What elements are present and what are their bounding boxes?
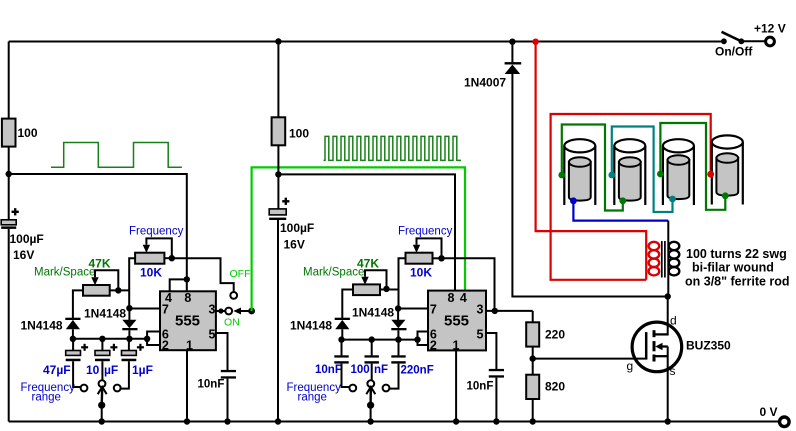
node cap rail at D3	[338, 336, 344, 342]
terminal 0 V	[760, 405, 790, 427]
wire MOSFET source to 0V rail	[667, 347, 669, 422]
wire green gate signal to U2 pin4	[252, 167, 465, 311]
node C2 on 0V rail	[275, 418, 281, 424]
wire switch to +12V terminal	[741, 40, 765, 42]
wire U1 pins 4 8 supply link	[170, 279, 187, 291]
svg-text:ON: ON	[224, 317, 240, 329]
wire timing cap rail (first 555)	[73, 338, 147, 340]
node cell3 outer green	[657, 171, 664, 178]
svg-text:100µF: 100µF	[280, 221, 314, 235]
wire pin3 to R3	[532, 311, 534, 322]
svg-text:s: s	[670, 364, 676, 378]
capacitor 10nF (U2 pin5)	[467, 369, 505, 393]
wire pin7 junction to U2 pin 7	[398, 308, 428, 310]
wire capacitor C1 to 0V rail	[8, 229, 10, 422]
waveform fast square wave	[324, 136, 462, 160]
wire U2 pin5 to 10nF	[486, 333, 496, 369]
wire 220nF to range contact	[390, 364, 399, 389]
switch pole arrow (second 555)	[366, 387, 375, 405]
svg-text:range: range	[32, 392, 61, 404]
wire pin7 junction down to diode D4	[397, 309, 399, 321]
svg-text:5: 5	[477, 328, 484, 342]
wire 10nF to range contact	[342, 364, 350, 387]
wire node to 555 U1 supply	[9, 174, 187, 279]
diode D4 1N4148 (second 555)	[391, 320, 406, 331]
wire 10uF to range contact	[101, 361, 103, 380]
node cap rail at D4	[395, 336, 401, 342]
svg-text:d: d	[670, 314, 677, 328]
wire U1 pin5 to 10nF	[216, 333, 228, 370]
node cell4 inner green	[722, 192, 729, 199]
wire 47K right to pin7 vertical	[110, 289, 130, 291]
wire resistor R2 top	[277, 42, 279, 118]
wire R3 to R4	[532, 347, 534, 375]
wire top +12V rail	[9, 41, 724, 43]
potentiometer 10K body (first 555)	[135, 253, 164, 280]
capacitor C2 100uF 16V	[269, 198, 314, 252]
wire bottom 0V rail	[9, 421, 779, 423]
electrolysis cell 2 inner electrode	[619, 157, 641, 200]
wire 1uF to range contact	[121, 361, 129, 388]
inductor primary winding (red)	[649, 242, 660, 276]
svg-text:10nF: 10nF	[315, 364, 342, 376]
node U2 pin3	[492, 308, 498, 314]
electrolysis cell 4 outer tube	[712, 135, 743, 204]
wire green cell3 outer to cell4 inner	[660, 123, 725, 210]
wire 10nF to 0V rail	[227, 379, 229, 422]
wire U1 pin1 to 0V rail	[186, 350, 188, 421]
node pin7 junction (first 555)	[126, 305, 132, 311]
inductor secondary winding (black)	[669, 242, 680, 276]
svg-text:555: 555	[175, 312, 200, 329]
wire R4 to 0V rail	[532, 399, 534, 422]
svg-text:1N4007: 1N4007	[464, 76, 506, 90]
potentiometer 10K wiper (second 555)	[413, 238, 442, 258]
potentiometer 10K (first 555) wiper	[143, 238, 172, 258]
op-amp timer U1 555	[160, 291, 216, 350]
svg-text:10nF: 10nF	[198, 379, 225, 391]
svg-text:BUZ350: BUZ350	[686, 339, 731, 353]
wire pole to 0V rail (second 555)	[370, 405, 372, 421]
capacitor C 220nF timing	[391, 340, 405, 364]
svg-text:+12 V: +12 V	[754, 22, 786, 36]
wire teal cell2 outer to cell3 inner	[612, 127, 673, 213]
wire 10K left terminal to pin7 node (second 555)	[399, 258, 406, 308]
wire D3 to cap rail	[341, 329, 343, 339]
node 10K right terminal (second 555)	[438, 255, 444, 261]
capacitor C 47uF	[66, 339, 88, 361]
wire D2 to cap rail	[128, 330, 130, 339]
wire left vertical from +12V rail	[8, 42, 10, 119]
diode D1 1N4148 (first 555)	[65, 318, 80, 330]
svg-text:1N4148: 1N4148	[290, 319, 332, 333]
svg-text:Frequency: Frequency	[129, 226, 184, 238]
svg-text:1N4148: 1N4148	[84, 306, 126, 320]
wire D1 to cap rail	[72, 329, 74, 339]
resistor R1 100	[2, 119, 38, 147]
potentiometer 10K body (second 555)	[406, 253, 433, 280]
wire green cell1 outer to cell2 inner	[562, 125, 623, 211]
svg-text:Mark/Space: Mark/Space	[34, 267, 95, 279]
contact range B (second 555)	[367, 380, 374, 387]
wire pole to 0V rail	[101, 405, 103, 421]
wire pins 6 and 2 link (first 555)	[147, 332, 160, 346]
electrolysis cell 2 outer tube	[614, 139, 645, 205]
node pole mid (first 555)	[98, 402, 105, 409]
wire 10K left terminal to pin7 node	[129, 258, 135, 308]
node red tap on +12V rail	[532, 39, 538, 45]
contact OFF	[230, 292, 237, 299]
contact ON	[225, 308, 232, 315]
transistor Q1 BUZ350	[632, 322, 682, 372]
node source on 0V rail	[665, 418, 671, 424]
svg-text:7: 7	[430, 303, 437, 317]
node cell1 inner blue	[570, 197, 577, 204]
wire gate node to MOSFET gate	[533, 358, 646, 360]
node pole mid (second 555)	[367, 402, 374, 409]
svg-text:nF: nF	[374, 364, 388, 376]
wire red primary bottom to cell 4 outer	[551, 114, 711, 280]
svg-text:8: 8	[184, 291, 191, 305]
diode D5 1N4007	[464, 42, 521, 90]
svg-text:0 V: 0 V	[760, 405, 778, 419]
node cell4 outer red	[707, 171, 714, 178]
svg-text:100 turns 22 swg: 100 turns 22 swg	[686, 247, 787, 261]
contact range C (second 555)	[383, 385, 390, 392]
transformer core ferrite rod	[662, 241, 665, 278]
node U1 pin1 on 0V rail	[184, 418, 190, 424]
node 1N4007 tap on +12V rail	[509, 39, 515, 45]
node cell2 inner green	[619, 197, 626, 204]
node cap rail at D2	[126, 336, 132, 342]
wire pin7 junction to 555 U1 pin 7	[129, 308, 160, 310]
electrolysis cell 3 inner electrode	[668, 155, 690, 199]
svg-text:47µF: 47µF	[43, 363, 71, 377]
waveform slow square wave	[51, 143, 182, 168]
node cell1 outer green	[558, 172, 565, 179]
capacitor 10nF (U1 pin5)	[198, 370, 237, 391]
node R4 on 0V rail	[530, 418, 536, 424]
svg-text:16V: 16V	[284, 238, 305, 252]
wire 47K right to pin7 vertical (second 555)	[380, 289, 399, 291]
svg-text:10K: 10K	[140, 266, 162, 280]
node pole on 0V rail (second 555)	[367, 418, 373, 424]
svg-text:3: 3	[209, 303, 216, 317]
node cap rail at C 10uF	[99, 336, 105, 342]
wire U1 pin3 output	[216, 310, 226, 312]
wire red +12V to primary top	[536, 42, 647, 280]
wire 47K left terminal down to diode D1	[73, 290, 83, 318]
wire 47uF to range contact	[73, 361, 80, 387]
capacitor C1 100uF 16V	[1, 208, 44, 262]
wire timing cap rail (second 555)	[342, 339, 418, 341]
node cap rail at C 100nF	[369, 336, 375, 342]
svg-text:g: g	[627, 359, 634, 373]
svg-text:100µF: 100µF	[10, 232, 44, 246]
node 47K right terminal (second 555)	[383, 286, 389, 292]
svg-text:220nF: 220nF	[401, 365, 434, 377]
svg-text:100: 100	[289, 127, 309, 141]
svg-text:100: 100	[351, 364, 370, 376]
svg-text:1µF: 1µF	[132, 363, 153, 377]
electrolysis cell 1 inner electrode	[569, 157, 591, 200]
electrolysis cell 1 outer tube	[564, 139, 595, 205]
wire 100nF to range contact	[371, 364, 373, 381]
svg-text:2: 2	[430, 338, 437, 352]
switch pole arrow (first 555)	[98, 387, 107, 405]
node pole on 0V rail	[99, 418, 105, 424]
capacitor C 1uF	[122, 339, 144, 361]
wire U1 pin 8 drop	[186, 279, 188, 291]
wire C2 to 0V rail	[277, 220, 279, 422]
wire 10K node down to U2 pin3	[442, 258, 495, 311]
svg-text:10K: 10K	[410, 266, 432, 280]
wire D4 to cap rail	[397, 330, 399, 339]
wire 10nF U2 to 0V rail	[495, 378, 497, 422]
wire U2 pin1 to 0V rail	[455, 350, 457, 421]
capacitor C 100nF timing	[365, 340, 379, 364]
wire resistor R1 to node	[8, 147, 10, 220]
contact range A (second 555)	[349, 385, 356, 392]
svg-text:4: 4	[460, 291, 467, 305]
potentiometer Mark/Space 47K wiper (second 555)	[361, 270, 386, 289]
diode D2 1N4148 (first 555)	[122, 320, 137, 331]
node cell3 inner teal	[669, 196, 676, 203]
node pin7 junction (second 555)	[395, 305, 401, 311]
svg-text:Frequency: Frequency	[398, 226, 453, 238]
resistor R4 820	[526, 375, 565, 399]
wire 10K node to OFF contact	[172, 258, 234, 292]
op-amp timer U2 555	[428, 291, 486, 351]
wire node to C2	[277, 174, 279, 209]
svg-text:1N4148: 1N4148	[352, 306, 394, 320]
wire pin7 junction down to diode D2	[128, 308, 130, 320]
capacitor C 10uF	[95, 339, 117, 361]
electrolysis cell 3 outer tube	[663, 139, 694, 205]
node drain junction	[665, 293, 671, 299]
switch On/Off	[715, 32, 753, 59]
node 10nF U2 on 0V rail	[493, 418, 499, 424]
wire 1N4007 to drain node	[512, 74, 667, 297]
svg-text:820: 820	[545, 380, 565, 394]
svg-text:7: 7	[162, 303, 169, 317]
node U1 supply	[184, 276, 190, 282]
potentiometer Mark/Space 47K body (first 555)	[83, 285, 110, 296]
node 47K right terminal	[115, 287, 121, 293]
svg-text:on 3/8" ferrite rod: on 3/8" ferrite rod	[685, 274, 790, 288]
resistor R2 100	[272, 117, 310, 145]
node 10nF on 0V rail	[224, 418, 230, 424]
wire secondary vertical to drain node	[667, 221, 669, 297]
node gate divider	[530, 355, 536, 361]
potentiometer Mark/Space 47K body (second 555)	[353, 284, 380, 295]
svg-text:3: 3	[477, 303, 484, 317]
svg-text:100: 100	[18, 126, 38, 140]
svg-text:range: range	[298, 392, 327, 404]
resistor R3 220	[526, 322, 565, 346]
node cap rail at D1	[70, 336, 76, 342]
node top of resistor R2	[275, 38, 281, 44]
capacitor C 10nF timing	[334, 340, 348, 364]
wire 10K right terminal stub	[164, 257, 171, 259]
wire R2 to node	[277, 145, 279, 174]
svg-text:5: 5	[209, 328, 216, 342]
contact range C (first 555)	[114, 385, 121, 392]
node below R2	[275, 171, 281, 177]
contact range B (first 555)	[99, 380, 106, 387]
svg-text:µF: µF	[104, 363, 118, 377]
svg-text:Mark/Space: Mark/Space	[303, 267, 364, 279]
switch gate select wiper arrow	[233, 308, 251, 315]
svg-text:10nF: 10nF	[467, 381, 494, 393]
node cap rail at pins 6-2	[144, 336, 150, 342]
node U1 pin3	[218, 308, 223, 313]
node cell2 outer teal	[608, 172, 615, 179]
node 10K right terminal	[169, 255, 175, 261]
node cap rail at pins 6-2 (second 555)	[414, 336, 420, 342]
svg-text:10: 10	[86, 363, 100, 377]
wire 10K right terminal stub (second 555)	[433, 257, 442, 259]
potentiometer Mark/Space 47K wiper (first 555)	[91, 270, 118, 290]
svg-text:220: 220	[545, 328, 565, 342]
svg-text:8: 8	[448, 291, 455, 305]
electrolysis cell 4 inner electrode	[716, 153, 738, 195]
contact range A (first 555)	[81, 385, 88, 392]
wire blue cell1 inner to secondary top	[573, 201, 668, 221]
svg-text:bi-filar wound: bi-filar wound	[692, 261, 774, 275]
svg-text:2: 2	[162, 338, 169, 352]
svg-text:1: 1	[453, 338, 460, 352]
wire drain node to MOSFET	[667, 297, 669, 336]
node U2 pin1 on 0V rail	[453, 418, 459, 424]
svg-text:16V: 16V	[13, 248, 34, 262]
node left junction	[6, 171, 12, 177]
node gate select common	[248, 308, 255, 315]
wire node to U2 pin8 supply	[278, 174, 455, 290]
wire pins 6 and 2 link (second 555)	[418, 332, 429, 346]
diode D3 1N4148 (second 555)	[335, 318, 350, 330]
svg-text:555: 555	[444, 312, 469, 329]
svg-text:1N4148: 1N4148	[21, 319, 63, 333]
wire U2 pin3 to gate divider	[486, 310, 533, 312]
wire 47K left terminal to diode D3	[342, 290, 353, 319]
svg-text:On/Off: On/Off	[715, 45, 753, 59]
terminal +12 V	[754, 22, 786, 46]
svg-text:OFF: OFF	[230, 268, 251, 280]
